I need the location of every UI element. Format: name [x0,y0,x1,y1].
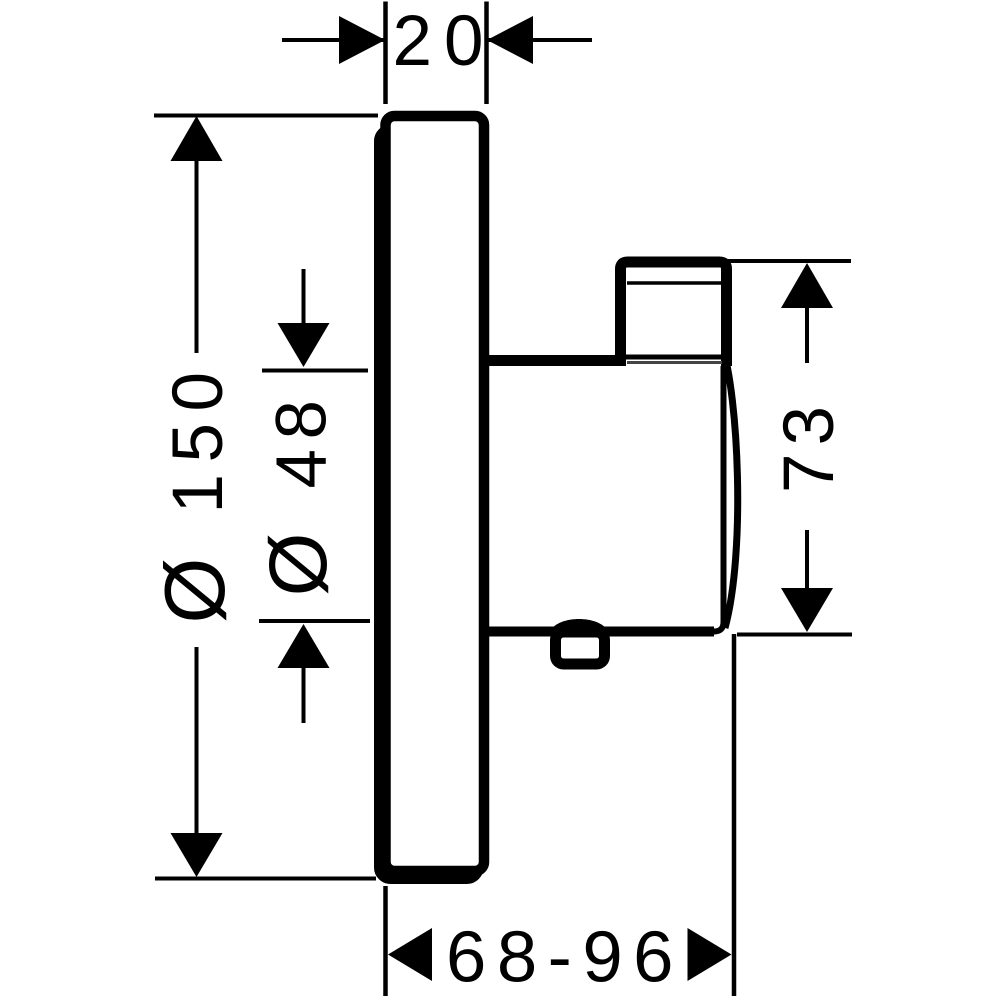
dim line upper (48) [302,269,306,327]
svg-text:Ø: Ø [148,557,243,623]
arrowhead up (150) [171,116,223,161]
dim line upper (150) [195,159,199,353]
arrowhead down (73) [781,588,833,632]
dim line left (20) [282,38,384,42]
arrowhead up (73) [781,263,833,308]
arrowhead up (48) [278,624,330,668]
tick lower (48) [259,619,370,623]
knob groove line [627,281,721,285]
front plate (escutcheon side view) [386,116,485,871]
dim line lower (48) [302,666,306,723]
svg-text:68-96: 68-96 [446,917,684,998]
tick upper (48) [262,369,368,373]
back plate (escutcheon rear edge) [380,130,479,879]
arrowhead down (150) [171,833,223,877]
tab (bottom stop) [556,632,605,664]
ext line right (20) [484,2,489,105]
arrowhead left-pointing (20) [487,16,533,64]
dim line lower (150) [195,647,199,836]
tab bump arc [550,619,608,631]
svg-text:150: 150 [159,361,238,514]
ext line left (20) [383,2,388,105]
svg-text:48: 48 [263,391,342,489]
dim line right (20) [488,38,592,42]
ext line bottom (150) [155,877,376,881]
arrowhead down (48) [278,323,330,367]
valve body right bulge [723,348,738,628]
body top edge thin gray under knob [627,361,722,364]
ext line bottom (73) [737,633,852,637]
ext line left (68-96) [383,886,388,996]
ext line right (68-96) [732,634,737,996]
ext line top (150) [154,114,378,118]
arrowhead left-pointing (68-96) [388,928,432,981]
body top edge under knob [624,355,722,360]
arrowhead right-pointing (68-96) [688,928,732,981]
svg-text:Ø: Ø [253,533,344,597]
arrowhead right-pointing (20) [339,16,385,64]
svg-text:20: 20 [393,2,496,81]
knob (cartridge stem cover) [621,262,727,366]
dim line lower (73) [805,530,809,591]
dim line upper (73) [805,306,809,363]
ext line top (73) [728,259,851,263]
valve body bottom edge [487,627,714,637]
body top edge [487,355,626,366]
valve body right straight edge [714,352,724,632]
svg-text:73: 73 [770,398,849,493]
